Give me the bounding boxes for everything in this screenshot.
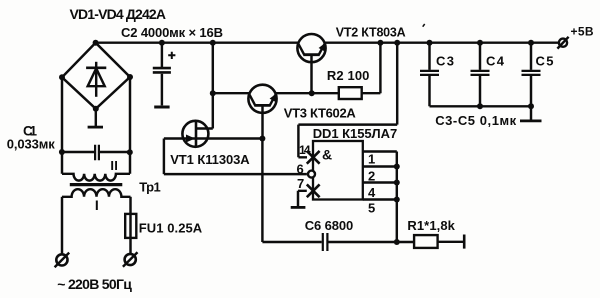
svg-text:R2 100: R2 100 [327, 68, 370, 83]
svg-text:II: II [110, 158, 118, 173]
svg-text:FU1 0.25А: FU1 0.25А [139, 220, 203, 235]
svg-text:4: 4 [368, 185, 376, 200]
svg-text:+5В: +5В [571, 25, 594, 39]
svg-text:C6 6800: C6 6800 [305, 218, 354, 233]
svg-text:14: 14 [299, 143, 311, 157]
svg-text:6: 6 [297, 161, 304, 176]
svg-text:0,033мк: 0,033мк [7, 137, 55, 152]
svg-text:I: I [95, 197, 99, 213]
svg-text:С3-С5 0,1мк: С3-С5 0,1мк [435, 113, 516, 128]
svg-text:~ 220В 50Гц: ~ 220В 50Гц [57, 276, 132, 292]
svg-text:Тр1: Тр1 [139, 180, 161, 195]
svg-text:VD1-VD4 Д242А: VD1-VD4 Д242А [70, 6, 167, 22]
svg-text:C4: C4 [486, 53, 505, 68]
svg-text:2: 2 [368, 169, 375, 184]
svg-text:&: & [322, 147, 332, 163]
svg-text:VT2 КТ803А: VT2 КТ803А [336, 26, 406, 40]
svg-text:C2 4000мк × 16В: C2 4000мк × 16В [121, 25, 223, 40]
svg-text:C3: C3 [436, 53, 454, 68]
svg-text:1: 1 [368, 152, 375, 167]
svg-text:VT1 К11303А: VT1 К11303А [170, 152, 250, 167]
svg-text:5: 5 [368, 201, 375, 216]
svg-text:R1*1,8k: R1*1,8k [407, 218, 455, 233]
svg-text:VT3 КТ602А: VT3 КТ602А [284, 105, 357, 120]
svg-text:DD1 К155ЛА7: DD1 К155ЛА7 [313, 126, 398, 141]
svg-text:7: 7 [297, 176, 304, 191]
svg-text:C5: C5 [536, 53, 554, 68]
